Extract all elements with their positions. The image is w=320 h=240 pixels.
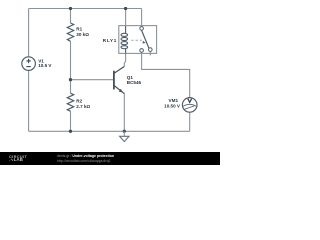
voltage source V1 (22, 57, 36, 71)
wire Q1 emitter down to bottom rail (123, 94, 125, 132)
svg-text:R1: R1 (76, 27, 82, 32)
relay NO stub pin (149, 52, 151, 56)
relay actuation arrow (143, 41, 146, 44)
wire base of Q1 (71, 79, 114, 81)
svg-text:R2: R2 (76, 99, 82, 104)
wire relay coil bottom pin to Q1 collector (124, 53, 125, 66)
svg-text:2.7 kΩ: 2.7 kΩ (76, 104, 90, 109)
svg-text:RLY1: RLY1 (103, 38, 117, 43)
node junction emitter/ground (123, 130, 126, 133)
relay coil (121, 26, 128, 53)
ground (123, 131, 125, 136)
relay switch arm (142, 30, 149, 48)
VM1 V letter (188, 99, 192, 103)
footer bar (0, 152, 220, 165)
wire R1 branch from top rail (70, 9, 72, 24)
wire relay coil top pin to top rail (125, 9, 127, 27)
wire left vertical (top wire to V1 top) (28, 9, 30, 57)
svg-text:VM1: VM1 (169, 98, 179, 103)
Q1 emitter arrow (119, 89, 123, 93)
svg-text:BC546: BC546 (127, 80, 142, 85)
relay common terminal (140, 27, 144, 31)
wire top horizontal (29, 8, 142, 10)
wire R1 bottom to R2 top (70, 41, 72, 93)
relay NO terminal (149, 48, 153, 52)
node junction top coil (124, 7, 127, 10)
resistor R2 (67, 93, 73, 111)
svg-text:10.50 V: 10.50 V (164, 104, 181, 109)
node junction base (69, 78, 72, 81)
svg-text:30 kΩ: 30 kΩ (76, 32, 89, 37)
svg-text:10.5 V: 10.5 V (38, 63, 52, 68)
node junction R2 bottom (69, 130, 72, 133)
footer url line (57, 159, 111, 163)
wire relay NC contact down and right to VM1 (142, 52, 190, 97)
footer title line (57, 154, 114, 158)
node junction top R1 (69, 7, 72, 10)
CircuitLab logo (9, 155, 27, 162)
voltmeter VM1 (182, 98, 197, 113)
resistor R1 (67, 23, 73, 41)
wire top-right corner down to relay common (141, 9, 143, 27)
wire VM1 bottom to bottom rail (189, 112, 191, 131)
relay NC terminal (140, 49, 144, 53)
relay actuation dashed line (131, 39, 142, 41)
transistor Q1 (114, 67, 124, 94)
relay RLY1 box (119, 26, 157, 54)
wire V1 bottom to bottom rail (28, 70, 30, 131)
wire bottom rail (29, 130, 190, 132)
wire R2 bottom to bottom rail (70, 111, 72, 131)
